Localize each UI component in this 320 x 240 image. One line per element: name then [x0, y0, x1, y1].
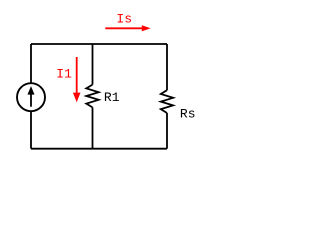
current source (circle symbol): [17, 83, 45, 111]
svg-text:R1: R1: [104, 90, 120, 105]
wire top (node between source, R1, Rs): [31, 43, 167, 45]
wire left lower (source bottom to bottom node): [30, 112, 32, 149]
annotation arrow I1 (load current, pointing down): [73, 57, 81, 102]
resistor Rs: [161, 90, 173, 113]
svg-text:Is: Is: [116, 12, 132, 27]
wire middle lower (R1 to bottom node): [92, 107, 94, 148]
wire right lower (Rs to bottom node): [166, 113, 168, 149]
annotation arrow Is (source current, pointing right): [105, 25, 150, 31]
svg-text:I1: I1: [56, 66, 72, 81]
wire right upper (top node to Rs): [166, 44, 168, 90]
wire bottom (common node): [31, 148, 167, 150]
wire middle upper (top node to R1): [92, 44, 94, 85]
resistor R1: [86, 85, 98, 108]
wire left upper (source top to top node): [30, 44, 32, 83]
svg-text:Rs: Rs: [180, 107, 196, 122]
